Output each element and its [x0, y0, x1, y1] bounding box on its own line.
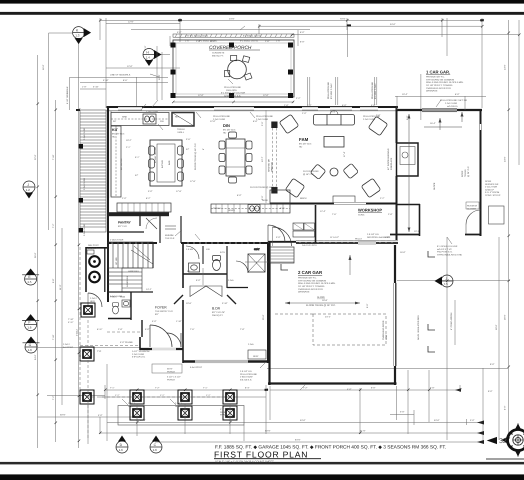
- svg-text:1'-1": 1'-1": [206, 394, 211, 397]
- svg-text:6-9" DIA COL: 6-9" DIA COL: [132, 356, 146, 359]
- svg-text:1 CAR GAR.: 1 CAR GAR.: [426, 70, 450, 75]
- svg-text:2-2x12: 2-2x12: [90, 297, 97, 300]
- svg-text:14'-1": 14'-1": [146, 288, 152, 291]
- svg-text:70'-0": 70'-0": [340, 17, 346, 20]
- svg-text:DBL POST: DBL POST: [88, 244, 99, 247]
- lower counters: [117, 203, 171, 212]
- porch-left extension verticals: [156, 46, 158, 100]
- svg-text:15/16 SGD: 15/16 SGD: [226, 89, 237, 92]
- svg-text:CONC. STOOP: CONC. STOOP: [485, 194, 501, 197]
- top black strip: [0, 0, 524, 4]
- svg-text:9'-0": 9'-0": [488, 390, 493, 393]
- svg-text:4'-10": 4'-10": [103, 79, 109, 82]
- svg-text:HANDRAIL: HANDRAIL: [126, 275, 129, 287]
- svg-text:11'-5 1/2": 11'-5 1/2": [330, 236, 339, 239]
- svg-text:WALLS AND CEILING. SLOPE A MIN: WALLS AND CEILING. SLOPE A MIN.: [426, 81, 464, 84]
- svg-text:7'-2": 7'-2": [155, 387, 160, 390]
- top border line: [0, 12, 524, 15]
- 2 car garage: [268, 242, 270, 385]
- svg-text:EATING: EATING: [161, 160, 164, 168]
- svg-text:17'-4": 17'-4": [343, 151, 346, 157]
- 1 car garage: [398, 109, 483, 111]
- svg-text:7'-1": 7'-1": [203, 387, 208, 390]
- svg-text:PORCH: PORCH: [167, 378, 175, 381]
- svg-text:36'-0": 36'-0": [34, 252, 37, 258]
- svg-text:42": 42": [186, 148, 189, 151]
- svg-text:4'-10" SIDEWALK: 4'-10" SIDEWALK: [66, 86, 69, 104]
- svg-text:32: 32: [499, 438, 507, 445]
- porch outline: [173, 40, 294, 97]
- svg-text:1'-6": 1'-6": [265, 40, 270, 43]
- svg-text:PELLA PROLINE: PELLA PROLINE: [327, 82, 330, 99]
- svg-text:@ 24" O.C.: @ 24" O.C.: [467, 165, 470, 177]
- svg-text:9'-0": 9'-0": [490, 363, 495, 366]
- svg-text:OVERHEAD DOOR FOR: OVERHEAD DOOR FOR: [426, 87, 451, 90]
- table: [228, 60, 247, 79]
- FAM right wall / garage left: [396, 107, 398, 143]
- svg-text:BRICK: BRICK: [300, 197, 307, 200]
- svg-text:CONCRETE: CONCRETE: [212, 52, 225, 55]
- svg-text:3'-0": 3'-0": [400, 411, 405, 414]
- svg-text:7'-10": 7'-10": [68, 318, 74, 321]
- svg-text:6'-0": 6'-0": [342, 104, 347, 107]
- svg-text:2-9x15 SDW: 2-9x15 SDW: [240, 376, 253, 379]
- svg-text:42": 42": [135, 174, 138, 177]
- svg-text:PROVIDE 5/8" F.C.: PROVIDE 5/8" F.C.: [426, 76, 445, 79]
- svg-text:2'-0": 2'-0": [122, 197, 127, 200]
- bottom dim rows: [105, 389, 266, 391]
- workshop door opening in FAM wall: [334, 202, 366, 204]
- svg-text:TRASH: TRASH: [177, 128, 185, 131]
- svg-text:PELLA PROLINE: PELLA PROLINE: [224, 86, 241, 89]
- fireplace: [397, 143, 419, 176]
- vestibule room: [273, 205, 316, 246]
- svg-text:1.5: 1.5: [27, 280, 32, 284]
- svg-text:3'-0": 3'-0": [470, 419, 475, 422]
- svg-text:2'-2": 2'-2": [380, 197, 385, 200]
- svg-text:11'-0": 11'-0": [210, 40, 216, 43]
- svg-text:2'-0": 2'-0": [261, 121, 264, 126]
- island: [150, 140, 182, 186]
- svg-text:30'-0": 30'-0": [60, 414, 66, 417]
- svg-text:36": 36": [113, 120, 116, 123]
- svg-text:4x4 POST: 4x4 POST: [63, 346, 74, 349]
- svg-text:12'-0": 12'-0": [263, 94, 269, 97]
- svg-text:HDR: HDR: [128, 405, 133, 408]
- svg-text:12'-0": 12'-0": [128, 21, 134, 24]
- svg-text:FAM: FAM: [299, 137, 309, 142]
- dimension arrowheads bottom right: [455, 388, 484, 444]
- svg-text:FOYER: FOYER: [155, 306, 167, 310]
- svg-text:PELLA: PELLA: [355, 238, 362, 241]
- svg-text:SLOPE: SLOPE: [317, 296, 325, 299]
- svg-text:TILE ENTRY CLG: TILE ENTRY CLG: [155, 310, 173, 313]
- svg-text:8'-0": 8'-0": [300, 40, 305, 43]
- svg-text:F: F: [28, 320, 30, 324]
- svg-text:4" CONC APRON: 4" CONC APRON: [450, 312, 453, 330]
- svg-text:KIT: KIT: [112, 128, 119, 132]
- svg-text:1'-0": 1'-0": [82, 86, 87, 89]
- svg-text:1.6: 1.6: [27, 326, 32, 330]
- svg-text:DRAINAGE: DRAINAGE: [426, 90, 438, 93]
- svg-text:2-2x12 HDR: 2-2x12 HDR: [146, 110, 158, 113]
- svg-text:OF 1/8" PER FT. TOWARD: OF 1/8" PER FT. TOWARD: [298, 285, 325, 288]
- svg-text:G: G: [29, 343, 32, 347]
- svg-text:7'-2": 7'-2": [52, 395, 55, 400]
- svg-text:12'-4": 12'-4": [320, 210, 326, 213]
- svg-text:1.2: 1.2: [26, 188, 31, 192]
- left vertical dims: [37, 55, 39, 448]
- svg-text:OVERHEAD DOOR FOR: OVERHEAD DOOR FOR: [298, 288, 323, 291]
- svg-text:22'-0": 22'-0": [34, 154, 37, 160]
- svg-text:5'-0": 5'-0": [280, 207, 285, 210]
- svg-text:PELLA PROLINE: PELLA PROLINE: [371, 82, 374, 99]
- svg-text:8'0 SDG 2-2x12: 8'0 SDG 2-2x12: [374, 83, 377, 99]
- svg-text:FIRST FLOOR PLAN: FIRST FLOOR PLAN: [214, 450, 308, 460]
- svg-text:HDR: HDR: [90, 300, 95, 303]
- svg-text:42" WOOD BURNING: 42" WOOD BURNING: [387, 148, 390, 170]
- svg-text:4'-0": 4'-0": [98, 414, 103, 417]
- svg-text:FLOOR TRUSS @ 16" O.C.: FLOOR TRUSS @ 16" O.C.: [250, 186, 278, 189]
- svg-text:1'-6": 1'-6": [185, 40, 190, 43]
- svg-text:11'-3": 11'-3": [59, 284, 62, 290]
- svg-text:7'-2": 7'-2": [52, 223, 55, 228]
- bottom black strip: [0, 474, 524, 480]
- svg-text:4'-0": 4'-0": [371, 104, 376, 107]
- svg-text:DIN: DIN: [223, 123, 230, 128]
- svg-text:HDWD: HDWD: [228, 209, 235, 212]
- svg-text:& SHELF: & SHELF: [88, 247, 98, 250]
- svg-text:2-2x12: 2-2x12: [76, 329, 79, 336]
- stud ticks on walls: [112, 241, 392, 245]
- svg-text:84'-0": 84'-0": [295, 439, 301, 442]
- right horizontals: [395, 95, 486, 97]
- dropped beam hatch band: [173, 34, 294, 37]
- dim row under porch: [173, 101, 294, 103]
- svg-text:3'-0": 3'-0": [276, 236, 281, 239]
- svg-text:34'-0": 34'-0": [390, 23, 396, 26]
- top right guide: [464, 96, 466, 110]
- svg-text:5-4x4 POST: 5-4x4 POST: [190, 366, 203, 369]
- svg-text:HDR: HDR: [175, 405, 180, 408]
- svg-text:@ 16" O.C.: @ 16" O.C.: [303, 173, 315, 176]
- svg-text:7'-1": 7'-1": [110, 387, 115, 390]
- svg-text:HD: HD: [299, 145, 303, 148]
- svg-text:ROSE: ROSE: [485, 180, 492, 183]
- svg-text:PELLA PROLINE 2.6FT DR: PELLA PROLINE 2.6FT DR: [440, 99, 467, 102]
- svg-text:w/4x6 POST E.S.: w/4x6 POST E.S.: [224, 94, 241, 97]
- svg-text:7'-2": 7'-2": [303, 387, 308, 390]
- svg-text:SLOPE: SLOPE: [433, 182, 436, 190]
- pantry: [107, 231, 144, 233]
- svg-text:9'-0": 9'-0": [366, 303, 369, 308]
- svg-text:36": 36": [187, 270, 190, 273]
- svg-text:6'-11": 6'-11": [97, 328, 103, 331]
- svg-text:2'-8": 2'-8": [118, 328, 123, 331]
- svg-text:4'-0" PLUMB: 4'-0" PLUMB: [120, 341, 133, 344]
- svg-text:9'0 1/8" CLG: 9'0 1/8" CLG: [299, 143, 312, 146]
- svg-text:9'-1 SOLID LVL HDR: 9'-1 SOLID LVL HDR: [437, 245, 458, 248]
- svg-text:WALLS AND CEILING. SLOPE A MIN: WALLS AND CEILING. SLOPE A MIN.: [298, 282, 336, 285]
- svg-text:2'-6" 9-1 3/4x11 1/4 LVL: 2'-6" 9-1 3/4x11 1/4 LVL: [185, 34, 209, 37]
- svg-text:WORKSHOP: WORKSHOP: [358, 208, 382, 213]
- svg-text:3 1/2" x 3 1/2": 3 1/2" x 3 1/2": [167, 376, 181, 379]
- svg-text:J: J: [27, 183, 29, 187]
- sidewalk lines top-left: [70, 76, 168, 78]
- svg-text:36'-0": 36'-0": [167, 368, 173, 371]
- leader diagonals: [228, 79, 233, 84]
- svg-text:1.6: 1.6: [153, 448, 158, 452]
- svg-text:43'-0": 43'-0": [434, 419, 440, 422]
- svg-text:w/5 1/2 X 7 1/2: w/5 1/2 X 7 1/2: [437, 248, 452, 251]
- svg-text:B.TH: B.TH: [220, 251, 225, 254]
- svg-text:w/5 GA EA: w/5 GA EA: [447, 105, 458, 108]
- svg-text:16'-0": 16'-0": [400, 251, 406, 254]
- svg-text:36" HUTCH: 36" HUTCH: [120, 158, 123, 170]
- svg-text:2x6 CLG JSTS: 2x6 CLG JSTS: [302, 244, 317, 247]
- svg-text:2'-0": 2'-0": [376, 114, 381, 117]
- svg-text:DRAINAGE: DRAINAGE: [298, 291, 310, 294]
- svg-text:8'-8": 8'-8": [253, 120, 258, 123]
- svg-text:DESK: DESK: [262, 199, 268, 202]
- arrow to compass: [486, 437, 524, 459]
- driveway rotated text guide: [454, 300, 456, 345]
- svg-text:4'-0": 4'-0": [152, 320, 157, 323]
- kitchen leaders: [141, 104, 146, 110]
- svg-text:TRASH: TRASH: [213, 207, 221, 210]
- svg-text:10'-1": 10'-1": [414, 230, 420, 233]
- svg-text:17'-6": 17'-6": [190, 180, 196, 183]
- svg-text:19'-8": 19'-8": [322, 299, 328, 302]
- window seat BDR: [248, 350, 266, 359]
- svg-text:2'-2": 2'-2": [296, 97, 301, 100]
- FAM bottom wall: [270, 203, 397, 205]
- svg-text:PSL POST E.S.: PSL POST E.S.: [437, 251, 453, 254]
- svg-text:2-9 1/4" LVL: 2-9 1/4" LVL: [240, 370, 253, 373]
- svg-text:54'-0": 54'-0": [34, 354, 37, 360]
- svg-text:2-2x12 HDR: 2-2x12 HDR: [363, 118, 375, 121]
- svg-text:8'-0": 8'-0": [237, 194, 242, 197]
- svg-text:2-2x12 HDR: 2-2x12 HDR: [485, 186, 497, 189]
- svg-text:E.S. 4" ROOM: E.S. 4" ROOM: [485, 191, 499, 194]
- svg-text:24'-0": 24'-0": [229, 17, 235, 20]
- svg-text:9'0 1/8" CLG: 9'0 1/8" CLG: [112, 133, 125, 136]
- svg-text:WDB: WDB: [120, 296, 126, 299]
- svg-text:2-9 5/8: 2-9 5/8: [186, 248, 194, 251]
- svg-text:12'-0": 12'-0": [158, 74, 161, 80]
- svg-text:ROOM W/: ROOM W/: [467, 205, 477, 208]
- up arrow: [349, 255, 351, 275]
- svg-text:3'-0": 3'-0": [148, 190, 153, 193]
- svg-text:1'-6": 1'-6": [276, 40, 281, 43]
- svg-text:1'-1": 1'-1": [160, 394, 165, 397]
- workshop/garage top wall: [268, 241, 296, 243]
- svg-text:TILE FLR: TILE FLR: [165, 237, 175, 240]
- svg-text:PANTRY: PANTRY: [118, 221, 132, 225]
- right vertical dims: [498, 237, 500, 440]
- svg-text:13'-7": 13'-7": [261, 156, 264, 162]
- bottom border line: [0, 462, 524, 465]
- svg-text:9'0 1/8" CLG: 9'0 1/8" CLG: [223, 129, 236, 132]
- svg-text:PWDR: PWDR: [110, 296, 117, 299]
- svg-text:2-2x12 HDR: 2-2x12 HDR: [83, 178, 86, 190]
- svg-text:8'-2": 8'-2": [146, 197, 151, 200]
- svg-text:TRUSS: TRUSS: [464, 169, 467, 177]
- svg-text:/ WALL: / WALL: [177, 131, 185, 134]
- svg-text:CLOSER: CLOSER: [467, 207, 476, 210]
- svg-text:5'-8": 5'-8": [52, 278, 55, 283]
- svg-text:1.4: 1.4: [146, 56, 151, 60]
- svg-text:16'-4": 16'-4": [430, 122, 436, 125]
- svg-text:9'0" CLG 4'6": 9'0" CLG 4'6": [212, 311, 225, 314]
- svg-text:LINE OF SIDEWALK: LINE OF SIDEWALK: [110, 74, 131, 77]
- svg-text:PELLA PROLINE: PELLA PROLINE: [256, 115, 273, 118]
- svg-text:24'-0": 24'-0": [504, 156, 507, 162]
- svg-text:2 CAR GAR: 2 CAR GAR: [298, 270, 323, 275]
- svg-text:4": 4": [202, 148, 205, 150]
- svg-text:OF 1/8" PER FT. TOWARD: OF 1/8" PER FT. TOWARD: [426, 84, 453, 87]
- svg-text:2-2x12: 2-2x12: [63, 343, 70, 346]
- kitchen dark band: [108, 212, 170, 216]
- svg-text:9-1 3/4x11 1/4" LVL HDR: 9-1 3/4x11 1/4" LVL HDR: [221, 92, 246, 95]
- svg-text:6'-0": 6'-0": [307, 104, 312, 107]
- svg-text:GYPID INSULATED OHD: GYPID INSULATED OHD: [437, 253, 462, 256]
- svg-text:SERVICE DR: SERVICE DR: [485, 183, 499, 186]
- extension lines below posts: [87, 404, 89, 444]
- svg-text:MUDRM: MUDRM: [165, 234, 174, 237]
- svg-text:8'-4": 8'-4": [245, 387, 250, 390]
- svg-text:5'-0": 5'-0": [196, 279, 201, 282]
- svg-text:GABE: GABE: [220, 411, 227, 414]
- arched opening DIN/FAM: [261, 110, 278, 203]
- svg-text:FIREPLACE: FIREPLACE: [390, 157, 393, 170]
- svg-text:HD: HD: [223, 131, 227, 134]
- svg-text:4'-11": 4'-11": [68, 321, 74, 324]
- svg-text:5'-0": 5'-0": [145, 328, 150, 331]
- svg-text:1.3: 1.3: [75, 34, 80, 38]
- svg-text:8'-0": 8'-0": [300, 31, 305, 34]
- svg-text:4'-10": 4'-10": [93, 86, 99, 89]
- svg-text:REF: REF: [175, 116, 180, 119]
- svg-text:FLOOR TRUSS: FLOOR TRUSS: [303, 170, 319, 173]
- svg-text:7'-10": 7'-10": [52, 334, 55, 340]
- svg-text:GYP. BOARD ON COMMON: GYP. BOARD ON COMMON: [426, 78, 454, 81]
- svg-text:2-2x12: 2-2x12: [128, 402, 135, 405]
- svg-text:16'-8": 16'-8": [330, 111, 336, 114]
- svg-text:UP 15R: UP 15R: [115, 257, 118, 265]
- svg-text:TYP: TYP: [97, 350, 102, 353]
- svg-text:9'-0": 9'-0": [406, 115, 409, 120]
- svg-text:7'-6": 7'-6": [190, 328, 195, 331]
- svg-text:PORCH: PORCH: [167, 370, 175, 373]
- svg-text:9'0": 9'0": [155, 313, 159, 316]
- svg-text:17'-6": 17'-6": [176, 190, 182, 193]
- svg-text:2-2x6: 2-2x6: [248, 343, 254, 346]
- svg-text:18'-0": 18'-0": [495, 324, 498, 330]
- svg-text:PROVIDE 5/8" F.C.: PROVIDE 5/8" F.C.: [298, 277, 317, 280]
- svg-text:7'-8": 7'-8": [240, 328, 245, 331]
- svg-text:2'-8": 2'-8": [388, 213, 393, 216]
- svg-text:2-2x12 HDR: 2-2x12 HDR: [83, 128, 86, 140]
- garage door opening in right wall: [393, 283, 395, 366]
- svg-text:8'-0": 8'-0": [455, 93, 460, 96]
- svg-text:GYP. BOARD ON COMMON: GYP. BOARD ON COMMON: [298, 279, 326, 282]
- svg-text:24'-1": 24'-1": [325, 316, 331, 319]
- svg-text:9'0" CLG: 9'0" CLG: [118, 225, 127, 228]
- svg-text:2-2x6: 2-2x6: [228, 279, 234, 282]
- svg-text:4'-0": 4'-0": [177, 31, 182, 34]
- svg-text:3'-10": 3'-10": [222, 302, 228, 305]
- svg-text:LIN: LIN: [206, 248, 210, 251]
- svg-text:1'-6": 1'-6": [196, 40, 201, 43]
- svg-text:8'-0": 8'-0": [371, 387, 376, 390]
- svg-text:BAR: BAR: [168, 160, 171, 165]
- svg-text:ALUM. INSULATED DRS: ALUM. INSULATED DRS: [417, 315, 420, 340]
- svg-text:SCALE: 1/4" = 1'-0" ON 24x36 &: SCALE: 1/4" = 1'-0" ON 24x36 & COUNT SHE…: [215, 460, 274, 463]
- svg-text:B.DR: B.DR: [212, 307, 221, 311]
- svg-text:12'-0": 12'-0": [127, 65, 133, 68]
- svg-text:3'-6": 3'-6": [186, 138, 191, 141]
- svg-text:OPENING: OPENING: [271, 162, 274, 172]
- svg-text:ARCHED DR: ARCHED DR: [268, 159, 271, 172]
- svg-text:CONC: CONC: [358, 214, 365, 217]
- svg-text:12'-0": 12'-0": [198, 94, 204, 97]
- svg-text:43'-0": 43'-0": [300, 419, 306, 422]
- svg-text:8'0 SDG 2-2x12: 8'0 SDG 2-2x12: [330, 83, 333, 99]
- svg-text:2-2x12 HDR: 2-2x12 HDR: [256, 118, 268, 121]
- svg-text:2-DUCT HDR: 2-DUCT HDR: [110, 239, 124, 242]
- svg-text:OVERHEAD DOOR: OVERHEAD DOOR: [382, 320, 385, 340]
- svg-text:SEAT: SEAT: [253, 355, 259, 358]
- svg-text:258 SQ.FT.: 258 SQ.FT.: [212, 314, 223, 317]
- mudroom dividers: [159, 216, 161, 243]
- svg-text:7'-6": 7'-6": [332, 213, 337, 216]
- pantry door: [146, 218, 157, 229]
- svg-text:7'-10": 7'-10": [52, 154, 55, 160]
- svg-text:25'-0": 25'-0": [262, 314, 265, 320]
- svg-text:2-9 1/4" LVL: 2-9 1/4" LVL: [367, 233, 380, 236]
- svg-text:5'-1": 5'-1": [135, 156, 140, 159]
- svg-text:4/5 2x6 E.S.: 4/5 2x6 E.S.: [240, 378, 252, 381]
- svg-text:1.6: 1.6: [119, 448, 124, 452]
- svg-text:9-1 3/4x11 1/4 LVL: 9-1 3/4x11 1/4 LVL: [243, 34, 262, 37]
- dim arrow inside garage: [285, 302, 360, 304]
- svg-text:PELLA PROLINE: PELLA PROLINE: [213, 115, 230, 118]
- svg-text:4'-0": 4'-0": [430, 387, 435, 390]
- svg-text:16'-0": 16'-0": [42, 64, 45, 70]
- svg-text:10'-4": 10'-4": [402, 93, 408, 96]
- svg-text:14'-0": 14'-0": [504, 64, 507, 70]
- svg-text:9-1 3/4x11 1/4 LVL: 9-1 3/4x11 1/4 LVL: [240, 40, 259, 43]
- svg-text:28'-0": 28'-0": [504, 314, 507, 320]
- svg-text:DROPPED 4x6 BEAMS: DROPPED 4x6 BEAMS: [367, 236, 391, 239]
- svg-text:61'-0": 61'-0": [360, 430, 366, 433]
- svg-text:HD: HD: [112, 135, 116, 138]
- svg-text:42"x96" ISLAND: 42"x96" ISLAND: [154, 147, 157, 163]
- svg-text:2'-8": 2'-8": [284, 104, 289, 107]
- svg-text:2-2x12 HDR: 2-2x12 HDR: [83, 224, 86, 236]
- svg-text:2-2x12: 2-2x12: [175, 402, 182, 405]
- svg-text:10'-2": 10'-2": [126, 139, 132, 142]
- svg-text:556 SQ. FT.: 556 SQ. FT.: [212, 54, 224, 57]
- bath bottom wall: [183, 273, 227, 275]
- svg-text:FLOOR TRUSS @ 16" O.C.: FLOOR TRUSS @ 16" O.C.: [306, 304, 336, 307]
- svg-text:FLOOR TRUSS @ 16" O.C.: FLOOR TRUSS @ 16" O.C.: [194, 142, 197, 170]
- bath/hall extension: [245, 261, 268, 263]
- svg-text:4'-0": 4'-0": [144, 45, 147, 50]
- svg-text:10'-6": 10'-6": [186, 302, 192, 305]
- house top wall: [107, 106, 399, 108]
